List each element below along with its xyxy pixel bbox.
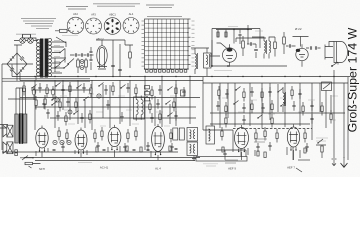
wire <box>293 147 300 160</box>
IF transformer L5 <box>252 37 275 59</box>
label <box>295 27 302 31</box>
switch S5 <box>316 139 326 145</box>
svg-text:AL 4: AL 4 <box>155 167 161 171</box>
tuning dial grid <box>142 17 195 73</box>
tube AC H1 (V1) <box>36 126 48 152</box>
power transformer Tr1 <box>36 38 51 77</box>
wire <box>211 40 287 67</box>
socket header text <box>93 4 140 6</box>
wire <box>241 149 255 156</box>
IF transformer L6 <box>134 94 145 121</box>
wire <box>20 80 203 82</box>
tube AL4 (V4) <box>152 124 165 155</box>
socket caption text <box>66 7 88 10</box>
svg-text:Ø 22: Ø 22 <box>295 27 302 31</box>
wave switch contacts <box>145 86 150 101</box>
anode resistor R5 <box>242 36 245 56</box>
wire <box>96 40 125 77</box>
svg-text:AB C2: AB C2 <box>96 37 104 41</box>
wire <box>2 79 90 81</box>
grid caption text <box>146 5 174 8</box>
label ACH1 <box>100 166 109 170</box>
wire <box>334 83 344 158</box>
capacitor C11 <box>286 44 296 48</box>
rectifier tube AZ11 <box>97 40 107 69</box>
volume pot <box>20 156 41 169</box>
wire <box>23 34 31 37</box>
svg-text:AL4: AL4 <box>129 13 134 16</box>
switch S3 <box>51 101 57 106</box>
resistor R8 <box>283 32 286 54</box>
label NFTl <box>39 167 45 171</box>
earth arrow 1 <box>332 159 337 166</box>
svg-text:NFTl: NFTl <box>39 167 45 171</box>
wire <box>22 38 36 80</box>
label field coil <box>316 138 328 141</box>
speaker terminals <box>15 150 18 156</box>
svg-text:AEF 9: AEF 9 <box>228 167 236 171</box>
wire <box>296 168 302 172</box>
wire <box>8 98 200 100</box>
component row (mid band) <box>23 82 302 102</box>
resistor R1 <box>129 45 132 68</box>
cable box <box>196 157 247 167</box>
component row 3 (mid band) <box>56 110 332 128</box>
capacitor C4 <box>90 47 93 70</box>
fuse Si1 <box>55 29 71 32</box>
svg-text:ABC1: ABC1 <box>109 14 116 17</box>
tube AEF (V6) <box>287 125 299 151</box>
capacitor C12 <box>306 46 321 50</box>
capacitor C8 <box>247 42 256 46</box>
chassis dashed line <box>233 128 312 130</box>
wire <box>203 77 348 160</box>
tube AF3 (V2) <box>75 128 87 154</box>
electrolytic cap C20 <box>32 86 36 100</box>
svg-text:AEF 7: AEF 7 <box>287 166 295 170</box>
label AEF7 <box>287 166 295 170</box>
bridge rectifier Gr1 <box>7 53 27 75</box>
resistor R15 <box>44 95 46 110</box>
wire <box>14 40 38 42</box>
wire <box>191 47 209 49</box>
wire <box>2 45 33 150</box>
wire <box>35 160 195 162</box>
label text mid2 <box>225 160 238 163</box>
legend text block <box>21 19 56 29</box>
capacitor C3 <box>111 65 122 70</box>
resistor R22 <box>264 152 266 158</box>
wire <box>2 151 178 153</box>
capacitor C9 <box>254 44 258 58</box>
speaker SP1 <box>3 125 13 137</box>
detector tube (top view) <box>296 44 308 66</box>
pilot lamp La2 <box>28 34 34 43</box>
svg-text:AK2: AK2 <box>73 13 78 16</box>
mixer tube AK2 <box>217 43 237 67</box>
trimmer T2 <box>97 94 101 98</box>
wire <box>125 40 133 45</box>
speaker SP2 <box>3 142 13 154</box>
tube ABC1 (V3) <box>108 125 121 150</box>
wire <box>56 37 66 43</box>
band switch circuit <box>216 25 263 44</box>
wire <box>326 91 331 129</box>
component row 2 (mid band) <box>35 96 323 116</box>
mains label text <box>62 35 78 37</box>
title Gross-Super 174 W <box>346 27 360 132</box>
wire <box>12 76 350 78</box>
svg-text:AC H1: AC H1 <box>100 166 109 170</box>
speaker switch <box>331 62 338 83</box>
trimmer T3 <box>68 110 72 114</box>
loudspeaker (electrodynamic) <box>325 42 348 63</box>
resistor R6 <box>274 37 277 57</box>
label text mid <box>254 139 267 142</box>
wire <box>52 42 66 73</box>
socket view V1 <box>67 13 84 34</box>
wire <box>24 157 200 159</box>
wire <box>35 106 196 108</box>
lamp label text <box>16 33 36 35</box>
wire <box>31 89 91 91</box>
socket label text <box>96 37 104 41</box>
wire <box>14 44 22 46</box>
wire <box>293 37 309 47</box>
wire <box>0 125 8 129</box>
socket view V4 <box>123 13 139 34</box>
svg-text:Groß-Super 174 W: Groß-Super 174 W <box>346 27 360 132</box>
svg-text:AF3: AF3 <box>91 14 96 17</box>
wire <box>50 117 196 119</box>
oscillator coil can <box>204 48 212 76</box>
label Bandfilter <box>214 70 232 72</box>
resistor R20 <box>321 146 323 158</box>
connector contacts <box>80 60 84 70</box>
IF coil L7 <box>283 87 286 112</box>
earth E1 <box>192 156 196 161</box>
wire <box>12 65 20 81</box>
capacitor C25 <box>223 150 226 160</box>
switch block S6 <box>322 82 332 91</box>
electrolytic cap C21 <box>51 86 55 100</box>
wire <box>216 150 246 157</box>
switch S2 <box>54 58 74 72</box>
wire <box>210 38 266 56</box>
label AL4 <box>155 167 161 171</box>
wire <box>16 88 26 114</box>
output transformer Tr2 <box>15 113 27 144</box>
filter capacitors C1 C2 <box>70 53 94 73</box>
wire <box>203 130 233 152</box>
oscillator coil L4 <box>195 48 198 74</box>
value label texture <box>60 94 338 126</box>
IF transformer cans <box>173 90 198 156</box>
vertical wires <box>35 76 334 150</box>
bottom band components <box>58 127 309 152</box>
socket view V2 <box>86 14 102 35</box>
earth arrow 2 <box>341 157 348 168</box>
tube AEF (V5) <box>235 125 249 152</box>
pilot lamp La1 <box>20 34 26 43</box>
trimmer T1 <box>55 98 59 102</box>
socket view V3 <box>104 14 121 35</box>
coil can <box>206 126 215 144</box>
wire <box>210 123 310 125</box>
jack contacts <box>53 140 71 144</box>
label Wellenschalter <box>78 162 92 164</box>
voltage selector switch <box>59 42 69 69</box>
capacitor C16 <box>46 109 49 119</box>
wire <box>210 112 345 114</box>
tap labels <box>54 41 60 72</box>
wire <box>298 159 310 161</box>
junction dots <box>34 76 334 77</box>
label AEF9 <box>228 167 236 171</box>
shield box <box>212 29 260 56</box>
tube base wiring <box>36 146 306 160</box>
